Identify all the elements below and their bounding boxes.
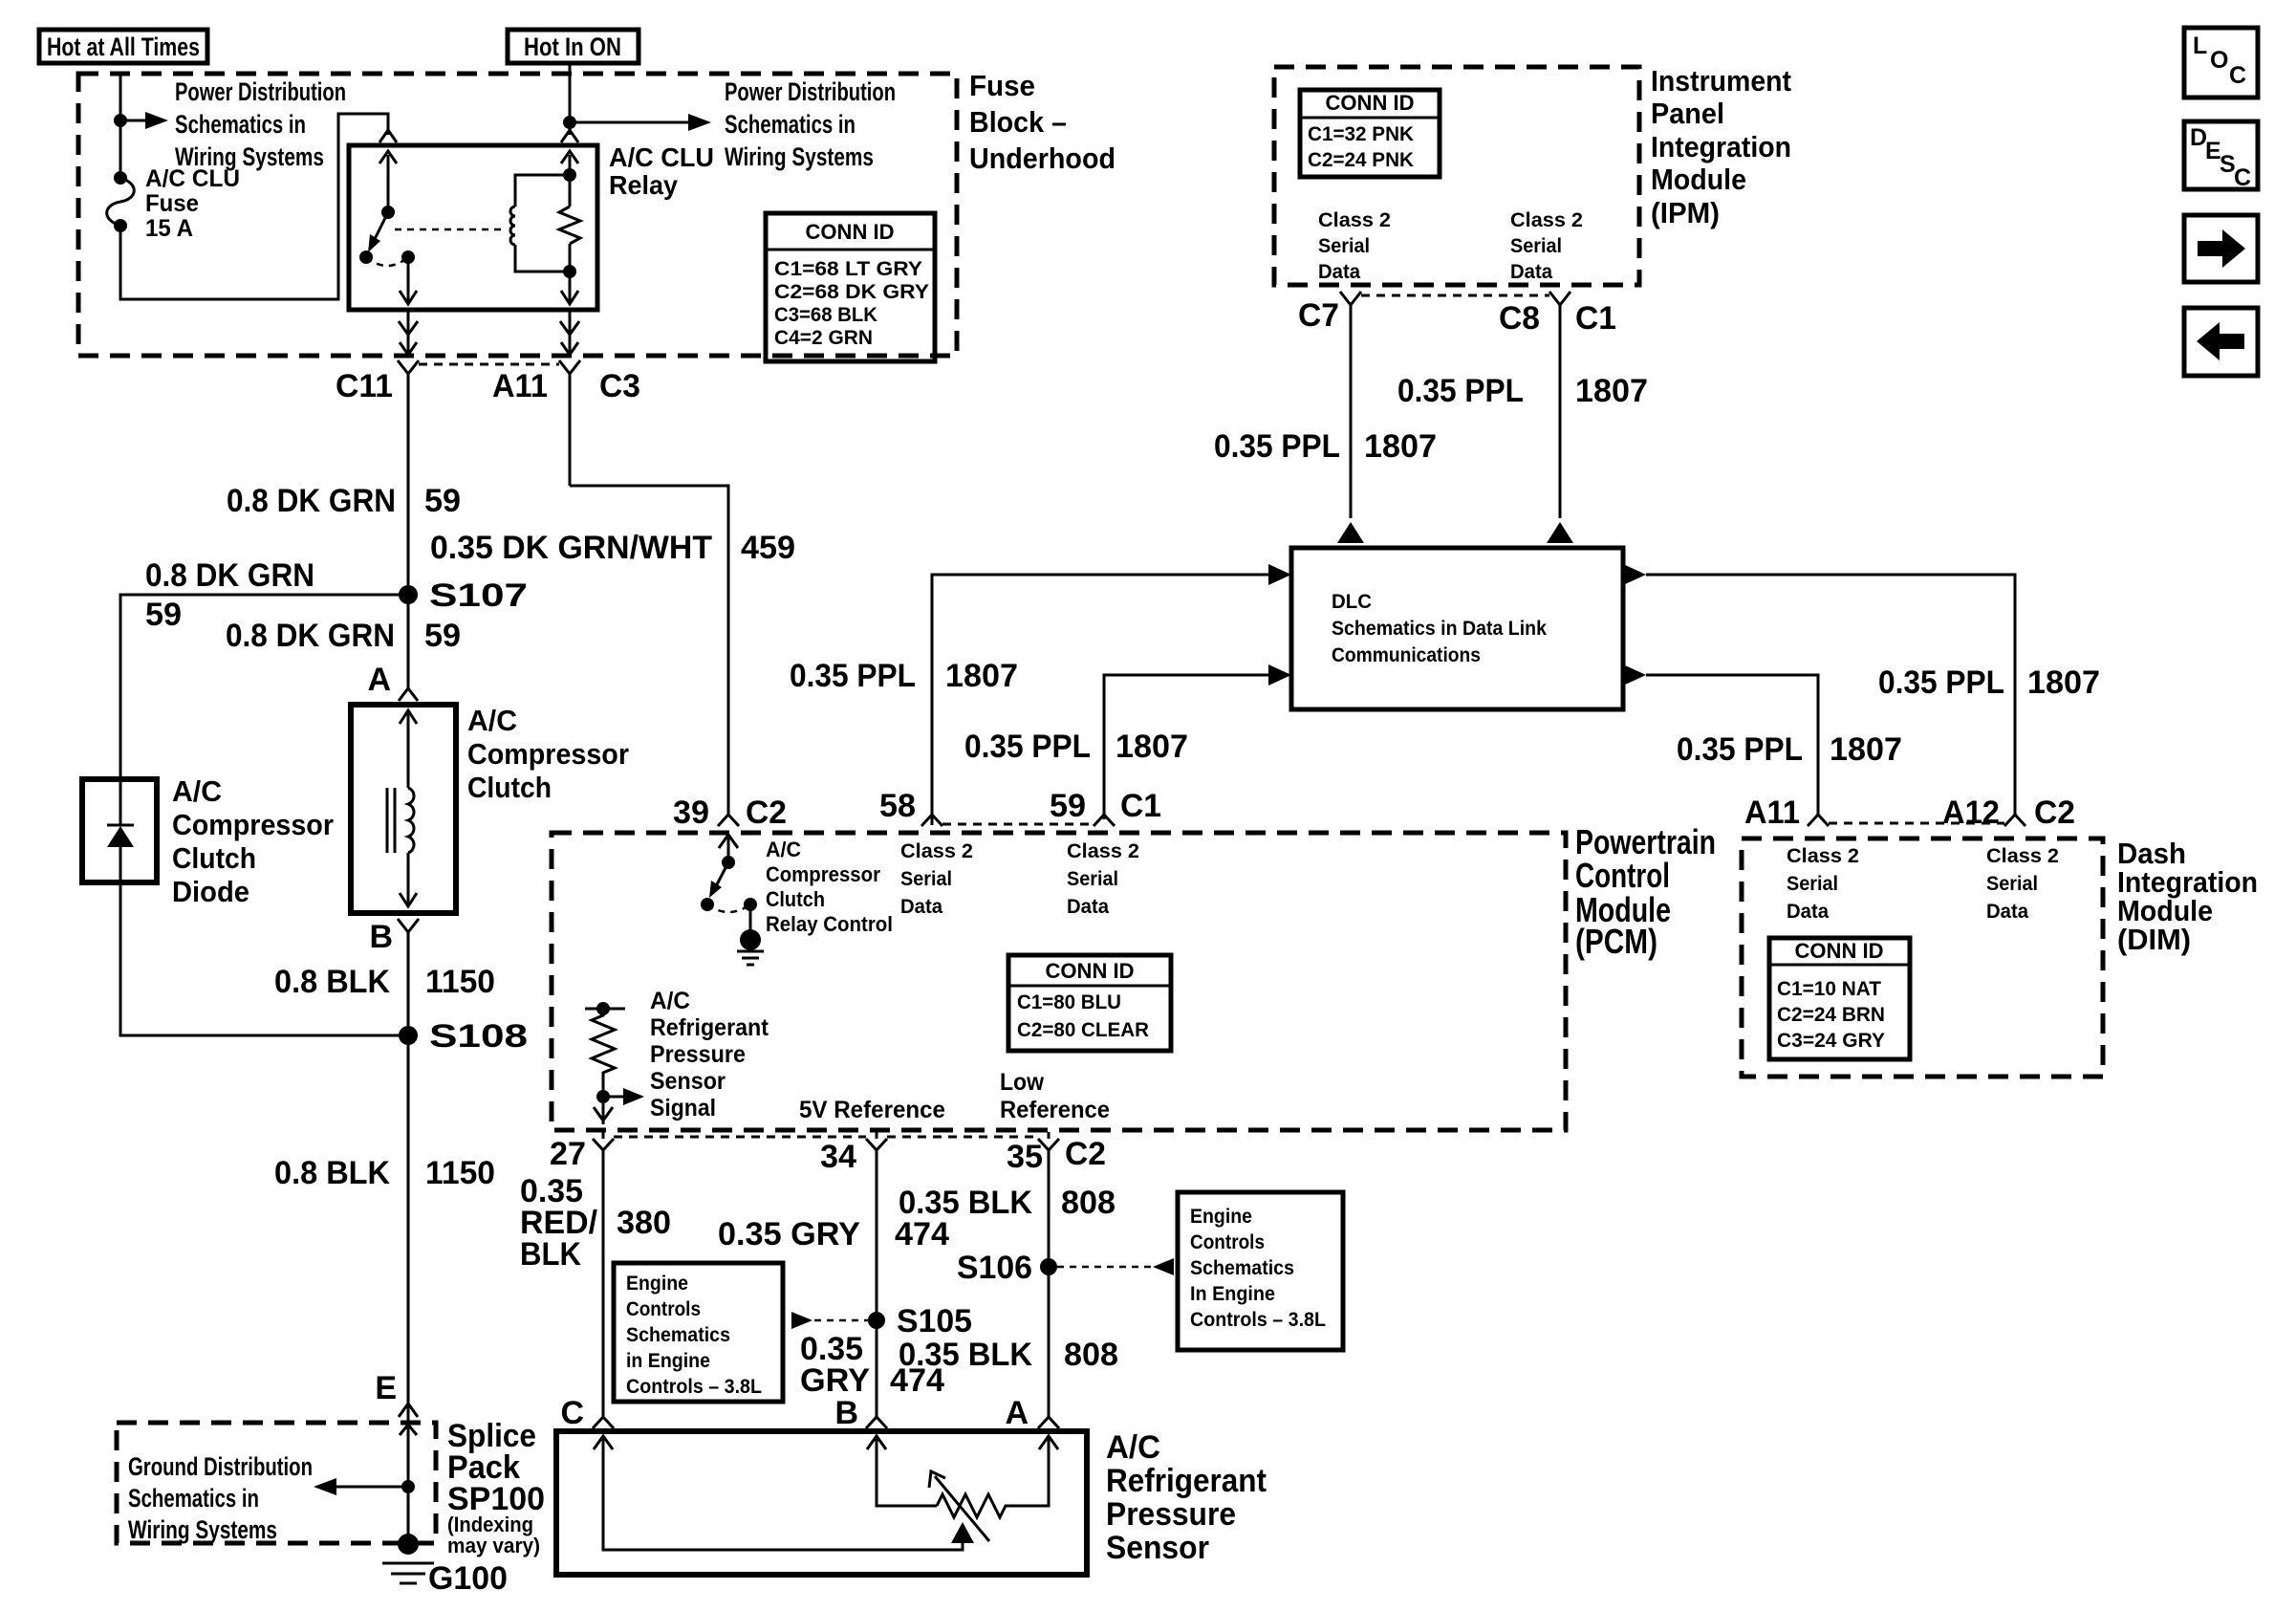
svg-text:0.8 BLK: 0.8 BLK <box>274 1155 390 1191</box>
svg-text:C7: C7 <box>1298 297 1339 334</box>
engine controls box right <box>1178 1192 1343 1350</box>
svg-text:Serial: Serial <box>1318 235 1370 257</box>
connector 59 fork at PCM <box>1094 815 1115 826</box>
label Low Reference <box>1000 1069 1110 1123</box>
label Class 2 Serial Data DIM right <box>1986 845 2059 923</box>
connector C7 fork <box>1340 292 1361 518</box>
svg-text:Underhood: Underhood <box>969 142 1116 175</box>
label Class 2 Serial Data PCM right <box>1067 840 1139 918</box>
wire relay out left to C11 <box>399 310 418 356</box>
header box Hot In ON <box>508 30 639 63</box>
label 0.35 GRY 474 upper <box>718 1216 949 1252</box>
svg-text:Sensor: Sensor <box>1106 1530 1209 1566</box>
svg-text:5V Reference: 5V Reference <box>799 1097 945 1123</box>
PCM internal resistor A/C refrigerant pressure sensor signal <box>585 1002 644 1124</box>
label 0.35 PPL 1807 on 59 wire <box>964 729 1188 765</box>
svg-text:39: 39 <box>673 795 709 831</box>
connector C8/C1 fork <box>1549 292 1570 518</box>
arrow out of DLC upper right <box>1623 564 1646 585</box>
svg-text:Refrigerant: Refrigerant <box>1106 1463 1267 1499</box>
svg-text:1150: 1150 <box>425 964 495 1000</box>
svg-text:A: A <box>1005 1395 1029 1431</box>
svg-text:A/C CLU: A/C CLU <box>145 165 240 192</box>
svg-text:A12: A12 <box>1942 795 2000 831</box>
svg-text:0.8 BLK: 0.8 BLK <box>274 964 390 1000</box>
svg-text:Power Distribution: Power Distribution <box>725 77 896 106</box>
svg-text:Wiring Systems: Wiring Systems <box>128 1515 277 1544</box>
svg-text:Refrigerant: Refrigerant <box>650 1014 769 1041</box>
svg-text:0.35 DK GRN/WHT: 0.35 DK GRN/WHT <box>430 530 712 566</box>
relay switch dashed link to coil <box>395 229 505 231</box>
DIM dashed box <box>1742 838 2103 1077</box>
dashed connector tie C7-C8 <box>1361 294 1549 297</box>
svg-text:Ground Distribution: Ground Distribution <box>128 1452 313 1481</box>
svg-text:Reference: Reference <box>1000 1097 1110 1123</box>
svg-text:S108: S108 <box>429 1018 528 1055</box>
svg-text:Panel: Panel <box>1651 97 1724 130</box>
svg-text:Controls – 3.8L: Controls – 3.8L <box>626 1376 762 1398</box>
svg-text:0.35 PPL: 0.35 PPL <box>1878 664 2004 701</box>
label 0.35 PPL 1807 on C1 wire <box>1397 373 1648 409</box>
connector 27 fork below PCM <box>593 1132 614 1150</box>
note Power Distribution left <box>175 77 346 171</box>
label 0.35 BLK 808 lower <box>899 1337 1118 1373</box>
wire S107 left branch <box>120 595 408 779</box>
svg-text:A/C: A/C <box>467 704 517 737</box>
dashed connector tie 27-34-35 <box>614 1136 1038 1139</box>
svg-text:27: 27 <box>550 1136 586 1172</box>
svg-text:1807: 1807 <box>945 658 1018 694</box>
arrowhead into clutch <box>399 688 418 701</box>
svg-text:Class 2: Class 2 <box>1510 209 1583 231</box>
svg-text:Schematics: Schematics <box>1190 1257 1294 1279</box>
connector A11/C3 fork <box>559 360 580 486</box>
svg-text:C2: C2 <box>1065 1136 1106 1172</box>
node Hot In ON junction <box>563 116 576 129</box>
svg-text:Class 2: Class 2 <box>1067 840 1139 862</box>
svg-text:B: B <box>834 1395 858 1431</box>
svg-text:C: C <box>560 1395 584 1431</box>
svg-text:Data: Data <box>900 896 942 918</box>
svg-text:Clutch: Clutch <box>766 887 825 911</box>
dashed arrow engine controls to S105 <box>791 1312 868 1329</box>
svg-text:S105: S105 <box>897 1303 972 1339</box>
svg-text:Wiring Systems: Wiring Systems <box>725 142 874 171</box>
svg-text:C2: C2 <box>746 795 787 831</box>
connector C11 fork <box>398 360 419 595</box>
svg-text:C1: C1 <box>1575 300 1616 337</box>
svg-text:E: E <box>375 1370 397 1406</box>
A/C refrigerant pressure sensor box <box>556 1431 1087 1575</box>
sensor C path <box>594 1436 974 1550</box>
label A/C Refrigerant Pressure Sensor Signal <box>650 988 769 1121</box>
svg-text:A/C: A/C <box>650 988 690 1014</box>
svg-text:Block –: Block – <box>969 105 1067 139</box>
svg-text:Class 2: Class 2 <box>1318 209 1391 231</box>
svg-text:Data: Data <box>1510 261 1552 283</box>
svg-text:C2: C2 <box>2034 795 2075 831</box>
svg-text:59: 59 <box>424 483 461 519</box>
svg-text:C2=80 CLEAR: C2=80 CLEAR <box>1017 1019 1149 1041</box>
relay resistor <box>559 151 580 304</box>
label Class 2 Serial Data IPM right <box>1510 209 1583 283</box>
svg-text:Instrument: Instrument <box>1651 64 1791 98</box>
svg-text:59: 59 <box>424 618 461 654</box>
connector B fork below clutch <box>398 919 419 1035</box>
svg-text:A/C: A/C <box>766 838 801 861</box>
connector 35 fork below PCM <box>1038 1132 1059 1150</box>
svg-text:808: 808 <box>1061 1185 1116 1221</box>
svg-text:Clutch: Clutch <box>467 771 552 804</box>
label Fuse Block - Underhood <box>969 69 1116 175</box>
svg-text:L: L <box>2193 33 2207 59</box>
CONN ID table PCM <box>1008 955 1171 1051</box>
svg-text:Power Distribution: Power Distribution <box>175 77 346 106</box>
label 0.35 PPL 1807 on C2 wire <box>1878 664 2100 701</box>
arrow to Power Distribution (right) <box>570 121 688 124</box>
label Dash Integration Module (DIM) <box>2117 837 2258 956</box>
svg-text:Class 2: Class 2 <box>900 840 973 862</box>
arrowhead into relay left <box>379 130 397 142</box>
svg-text:CONN ID: CONN ID <box>1795 939 1884 963</box>
nav box LOC <box>2184 28 2258 98</box>
wire diode to S108 <box>120 882 408 1035</box>
svg-text:Schematics in Data Link: Schematics in Data Link <box>1332 618 1547 640</box>
label 0.35 PPL 1807 on 58 wire <box>790 658 1018 694</box>
label A/C Compressor Clutch <box>467 704 629 804</box>
label Class 2 Serial Data PCM left <box>900 840 973 918</box>
svg-text:S106: S106 <box>957 1250 1032 1286</box>
nav box DESC <box>2184 121 2258 191</box>
svg-text:GRY: GRY <box>800 1362 870 1399</box>
connector C fork at sensor <box>593 1417 614 1428</box>
svg-text:Control: Control <box>1575 856 1670 895</box>
svg-text:C11: C11 <box>336 368 393 404</box>
svg-text:C2=24 PNK: C2=24 PNK <box>1308 149 1414 171</box>
wire 27 to sensor C <box>602 1150 605 1419</box>
svg-text:Signal: Signal <box>650 1095 716 1121</box>
arrow into DLC lower left <box>1268 664 1291 686</box>
svg-text:BLK: BLK <box>520 1236 581 1273</box>
svg-text:1807: 1807 <box>1364 428 1437 465</box>
connector A fork at sensor <box>1038 1417 1059 1428</box>
wire 35 to sensor A <box>1048 1150 1051 1419</box>
label 0.35 PPL 1807 on C7 wire <box>1214 428 1437 465</box>
svg-text:Schematics in: Schematics in <box>725 110 856 139</box>
svg-text:C1=32 PNK: C1=32 PNK <box>1308 123 1414 145</box>
svg-text:1807: 1807 <box>1830 731 1902 768</box>
splice pack dashed box <box>117 1423 436 1543</box>
label Instrument Panel Integration Module (IPM) <box>1651 64 1791 229</box>
node S106 splice <box>1040 1258 1057 1275</box>
node S108 splice <box>399 1026 418 1045</box>
svg-text:C3: C3 <box>599 368 640 404</box>
svg-text:0.8 DK GRN: 0.8 DK GRN <box>145 557 314 594</box>
svg-text:Module: Module <box>1651 163 1746 196</box>
svg-text:Low: Low <box>1000 1069 1044 1096</box>
fuse block underhood dashed box <box>78 74 957 356</box>
potentiometer variable arrow <box>929 1471 989 1541</box>
svg-text:Schematics in: Schematics in <box>175 110 306 139</box>
svg-text:Clutch: Clutch <box>172 841 256 875</box>
svg-text:59: 59 <box>145 597 182 633</box>
svg-text:Sensor: Sensor <box>650 1068 726 1095</box>
svg-text:808: 808 <box>1064 1337 1118 1373</box>
connector A11 fork at DIM <box>1808 815 1829 826</box>
wire DLC to DIM A11 <box>1646 675 1818 815</box>
relay switch <box>359 151 417 304</box>
svg-text:O: O <box>2210 47 2228 74</box>
header box Hot at All Times <box>39 30 207 63</box>
note Ground Distribution <box>128 1452 313 1544</box>
svg-text:0.35 BLK: 0.35 BLK <box>899 1337 1032 1373</box>
fuse A/C CLU 15A <box>107 171 135 232</box>
svg-text:Controls: Controls <box>626 1298 701 1320</box>
arrow out of DLC lower right <box>1623 664 1646 686</box>
engine controls box left <box>614 1263 783 1402</box>
svg-text:S107: S107 <box>429 577 528 614</box>
nav box arrow right <box>2184 215 2258 282</box>
arrowhead into relay right <box>561 130 578 142</box>
svg-text:Pressure: Pressure <box>650 1041 746 1068</box>
relay K A/C CLU box <box>349 145 597 310</box>
connector 58 fork at PCM <box>921 815 942 826</box>
label Class 2 Serial Data IPM left <box>1318 209 1391 283</box>
wire S108 down to E <box>407 1045 410 1404</box>
svg-text:Data: Data <box>1067 896 1109 918</box>
arrow to Power Distribution (left) <box>120 120 145 122</box>
wire into splice pack <box>400 1425 417 1544</box>
connector 39/C2 fork at PCM <box>718 803 739 826</box>
svg-text:Integration: Integration <box>1651 130 1791 163</box>
label DLC Schematics in Data Link Communications <box>1332 591 1547 666</box>
svg-text:Relay Control: Relay Control <box>766 912 893 936</box>
svg-text:C1: C1 <box>1120 788 1161 824</box>
svg-text:Controls: Controls <box>1190 1231 1265 1253</box>
svg-text:Serial: Serial <box>900 868 952 890</box>
label 0.8 DK GRN 59 left branch <box>145 557 314 633</box>
connector A12/C2 fork at DIM <box>2004 815 2025 826</box>
arrow into DLC upper left <box>1268 564 1291 585</box>
svg-text:C: C <box>2229 62 2246 89</box>
svg-text:In Engine: In Engine <box>1190 1283 1275 1305</box>
svg-text:0.35 PPL: 0.35 PPL <box>1677 731 1803 768</box>
svg-text:Class 2: Class 2 <box>1787 845 1859 867</box>
svg-text:G100: G100 <box>428 1560 508 1597</box>
arrow up out of DLC to C7 <box>1337 522 1364 543</box>
diode box A/C compressor clutch diode <box>82 779 157 882</box>
PCM internal switch A/C compressor clutch relay control <box>701 835 757 935</box>
svg-text:0.8 DK GRN: 0.8 DK GRN <box>226 618 395 654</box>
dashed arrow S106 to engine controls <box>1057 1258 1174 1275</box>
arrowhead into splice pack <box>399 1404 418 1417</box>
wire relay out right to C3 <box>560 310 579 356</box>
label 0.8 DK GRN 59 below S107 <box>226 618 461 654</box>
svg-text:Data: Data <box>1986 901 2028 923</box>
svg-text:15 A: 15 A <box>145 215 193 242</box>
svg-text:CONN ID: CONN ID <box>1326 91 1415 115</box>
wire S107 to clutch A <box>407 604 410 689</box>
svg-text:Controls – 3.8L: Controls – 3.8L <box>1190 1309 1326 1331</box>
svg-text:C: C <box>2234 164 2251 191</box>
svg-text:Hot In ON: Hot In ON <box>524 33 621 61</box>
label 0.8 BLK 1150 lower <box>274 1155 495 1191</box>
svg-text:0.35 PPL: 0.35 PPL <box>790 658 916 694</box>
clutch coil <box>387 710 417 906</box>
svg-text:0.35 GRY: 0.35 GRY <box>718 1216 860 1252</box>
svg-text:A/C CLU: A/C CLU <box>609 142 714 172</box>
arrow to ground distribution <box>336 1486 408 1489</box>
svg-text:C1=80 BLU: C1=80 BLU <box>1017 991 1121 1013</box>
label 0.8 DK GRN 59 above S107 <box>227 483 461 519</box>
svg-text:Serial: Serial <box>1067 868 1118 890</box>
svg-text:1150: 1150 <box>425 1155 495 1191</box>
connector 34 fork below PCM <box>866 1132 887 1150</box>
label 0.35 GRY 474 lower <box>800 1331 944 1399</box>
wire A11/C3 to PCM 39 <box>570 486 728 814</box>
svg-text:1807: 1807 <box>2027 664 2100 701</box>
svg-text:474: 474 <box>895 1216 949 1252</box>
svg-text:Fuse: Fuse <box>969 69 1035 102</box>
svg-text:380: 380 <box>617 1205 671 1241</box>
svg-text:B: B <box>369 919 393 955</box>
node S105 splice <box>868 1312 885 1329</box>
note Power Distribution right <box>725 77 896 171</box>
svg-text:A/C: A/C <box>1106 1429 1160 1466</box>
svg-text:A/C: A/C <box>172 774 222 808</box>
svg-text:A11: A11 <box>492 368 548 404</box>
svg-text:CONN ID: CONN ID <box>806 220 895 244</box>
svg-text:0.35 PPL: 0.35 PPL <box>964 729 1091 765</box>
svg-text:Engine: Engine <box>1190 1206 1252 1228</box>
svg-text:Serial: Serial <box>1510 235 1562 257</box>
label A/C Compressor Clutch Diode <box>172 774 334 908</box>
svg-text:Data: Data <box>1318 261 1360 283</box>
svg-text:(IPM): (IPM) <box>1651 196 1720 229</box>
label 0.35 PPL 1807 on A11 wire <box>1677 731 1902 768</box>
wire Hot In ON down <box>569 63 572 135</box>
svg-text:A11: A11 <box>1744 795 1800 831</box>
CONN ID table DIM <box>1769 938 1910 1059</box>
svg-text:Diode: Diode <box>172 875 249 908</box>
svg-text:Engine: Engine <box>626 1273 688 1295</box>
wire 34 to sensor B <box>876 1150 878 1419</box>
svg-text:35: 35 <box>1007 1139 1043 1175</box>
svg-text:1807: 1807 <box>1575 373 1648 409</box>
label A/C Compressor Clutch Relay Control <box>766 838 893 936</box>
svg-text:59: 59 <box>1050 788 1086 824</box>
svg-text:Compressor: Compressor <box>467 737 629 771</box>
svg-text:Data: Data <box>1787 901 1829 923</box>
svg-text:C1=10 NAT: C1=10 NAT <box>1777 978 1881 1000</box>
svg-text:(PCM): (PCM) <box>1575 922 1657 961</box>
PCM dashed box <box>552 833 1566 1130</box>
label Class 2 Serial Data DIM left <box>1787 845 1859 923</box>
A/C compressor clutch box <box>351 705 456 913</box>
svg-text:Serial: Serial <box>1986 873 2038 895</box>
label Splice Pack SP100 <box>447 1418 545 1557</box>
svg-text:Compressor: Compressor <box>766 862 880 886</box>
label A/C Refrigerant Pressure Sensor <box>1106 1429 1267 1566</box>
svg-text:(DIM): (DIM) <box>2117 923 2191 956</box>
ground symbol inside PCM <box>737 929 764 965</box>
DLC box <box>1291 548 1623 709</box>
svg-text:Class 2: Class 2 <box>1986 845 2059 867</box>
sensor B path <box>867 1436 937 1506</box>
label 0.35 DK GRN/WHT 459 <box>430 530 795 566</box>
svg-text:Pressure: Pressure <box>1106 1496 1236 1533</box>
wire fuse to relay jog <box>120 114 388 299</box>
dashed connector tie C11-A11 <box>419 363 559 366</box>
nav box arrow left <box>2184 308 2258 376</box>
svg-text:C3=24 GRY: C3=24 GRY <box>1777 1030 1885 1052</box>
node fuse feed junction <box>114 114 127 127</box>
svg-text:Relay: Relay <box>609 170 678 200</box>
ground G100 <box>382 1534 434 1583</box>
svg-text:C3=68 BLK: C3=68 BLK <box>774 304 877 326</box>
node splice junction <box>401 1480 415 1493</box>
wire fuse feed from Hot at All Times <box>119 74 122 178</box>
svg-text:DLC: DLC <box>1332 591 1372 613</box>
label 0.35 BLK 808 upper <box>899 1185 1116 1221</box>
label 0.8 BLK 1150 <box>274 964 495 1000</box>
wire DLC to DIM A12/C2 <box>1646 575 2015 815</box>
dashed connector tie 58-59 <box>942 823 1094 826</box>
sensor A path <box>1009 1436 1058 1506</box>
wire PCM 59 to DLC <box>1104 675 1268 819</box>
dashed connector tie A11-A12 <box>1829 822 2004 825</box>
relay coil <box>510 175 570 272</box>
svg-text:C8: C8 <box>1499 300 1540 337</box>
label A/C CLU Relay <box>609 142 714 200</box>
potentiometer resistor <box>937 1494 1009 1517</box>
svg-text:Serial: Serial <box>1787 873 1838 895</box>
svg-text:in Engine: in Engine <box>626 1350 710 1372</box>
svg-text:Communications: Communications <box>1332 644 1481 666</box>
label Powertrain Control Module (PCM) <box>1575 822 1716 961</box>
label 0.35 RED/ BLK <box>520 1173 598 1273</box>
svg-text:C2=24 BRN: C2=24 BRN <box>1777 1004 1885 1026</box>
svg-text:0.35 BLK: 0.35 BLK <box>899 1185 1032 1221</box>
node S107 splice <box>399 585 418 604</box>
svg-text:Fuse: Fuse <box>145 190 199 217</box>
svg-text:Schematics in: Schematics in <box>128 1484 259 1513</box>
svg-text:0.35 PPL: 0.35 PPL <box>1214 428 1340 465</box>
svg-text:A: A <box>367 662 391 698</box>
svg-text:Hot at All Times: Hot at All Times <box>47 33 200 61</box>
svg-text:Schematics: Schematics <box>626 1324 730 1346</box>
connector B fork at sensor <box>866 1417 887 1428</box>
arrow up out of DLC to C8 <box>1547 522 1573 543</box>
svg-text:CONN ID: CONN ID <box>1046 959 1135 983</box>
svg-text:1807: 1807 <box>1116 729 1188 765</box>
svg-text:58: 58 <box>879 788 916 824</box>
svg-text:0.35 PPL: 0.35 PPL <box>1397 373 1524 409</box>
IPM dashed box <box>1274 67 1639 285</box>
CONN ID table fuse block <box>766 213 935 361</box>
CONN ID table IPM <box>1300 90 1440 177</box>
wire PCM 58 to DLC <box>932 575 1268 825</box>
svg-text:C1=68 LT GRY: C1=68 LT GRY <box>774 258 922 280</box>
svg-text:Compressor: Compressor <box>172 808 334 841</box>
label A/C CLU Fuse 15 A <box>145 165 240 242</box>
svg-text:C2=68 DK GRY: C2=68 DK GRY <box>774 281 929 303</box>
svg-text:34: 34 <box>820 1139 856 1175</box>
svg-text:C4=2 GRN: C4=2 GRN <box>774 327 873 349</box>
svg-text:459: 459 <box>741 530 795 566</box>
svg-text:0.8 DK GRN: 0.8 DK GRN <box>227 483 396 519</box>
svg-text:may vary): may vary) <box>447 1534 540 1557</box>
